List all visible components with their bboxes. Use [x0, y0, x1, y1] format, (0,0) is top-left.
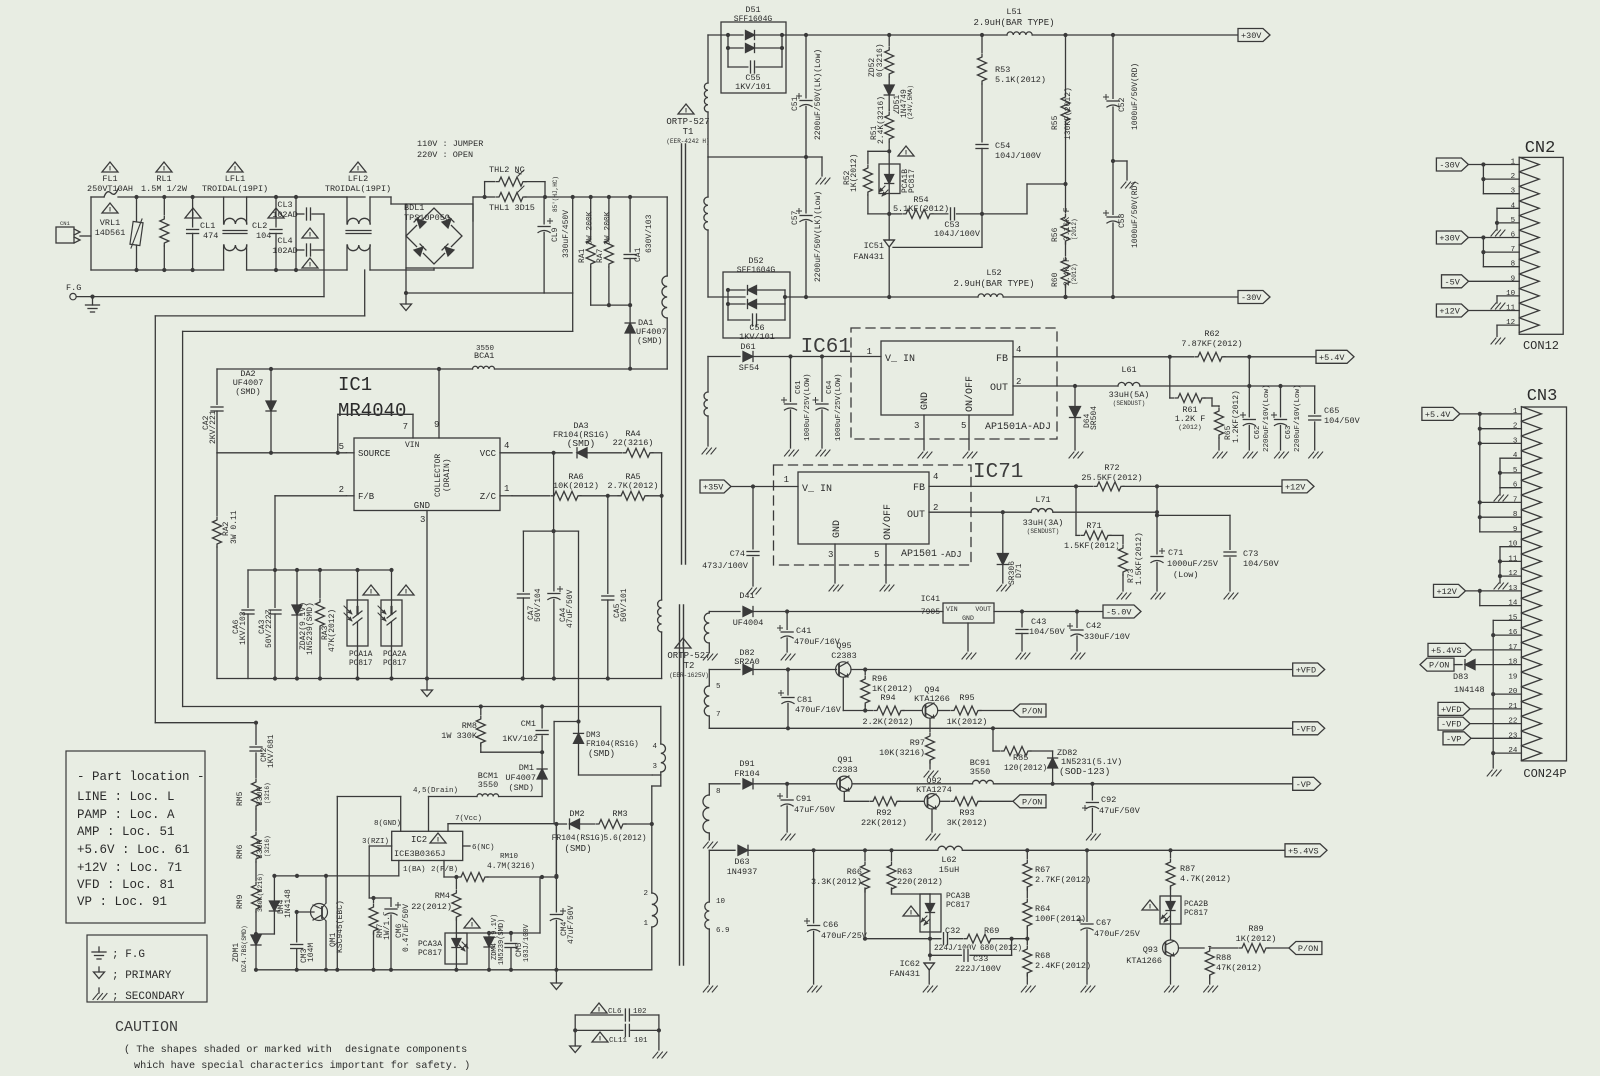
svg-text:PCA2B: PCA2B [1184, 900, 1208, 909]
svg-text:(SMD): (SMD) [637, 336, 663, 346]
wire CN2 pin 12 ground [1491, 325, 1519, 344]
label R51 [870, 96, 886, 144]
flag +30V [1238, 29, 1270, 42]
label DM2 [552, 809, 605, 854]
capacitor C81 [779, 670, 796, 731]
svg-text:2.9uH(BAR TYPE): 2.9uH(BAR TYPE) [973, 18, 1054, 28]
winding T2 VFD [704, 670, 721, 729]
svg-text:2KV/221: 2KV/221 [209, 410, 218, 444]
svg-text:Q91: Q91 [837, 755, 852, 765]
core T2 [680, 605, 684, 965]
wire bridge to B- rail [404, 268, 408, 295]
svg-text:16: 16 [1508, 629, 1518, 637]
svg-text:(EER-4242 H): (EER-4242 H) [666, 138, 709, 145]
resistor R92 [869, 796, 924, 806]
label C41 [794, 626, 841, 647]
label THL2 NC [489, 165, 525, 175]
IC41 7905 [921, 595, 994, 623]
inductor L62 [938, 845, 1285, 852]
svg-text:RA1: RA1 [578, 248, 587, 263]
svg-text:2.7KF(2012): 2.7KF(2012) [1035, 875, 1091, 885]
thermistor THL2 [485, 177, 545, 197]
svg-text:C33: C33 [973, 954, 988, 964]
capacitor C67 [1078, 850, 1095, 984]
label AP1501A-ADJ [985, 422, 1051, 433]
pin 2 F/B [339, 485, 375, 502]
inductor L52 [978, 292, 1238, 299]
wire CN3 pin 14 [1480, 591, 1522, 606]
svg-text:1N4148: 1N4148 [284, 889, 293, 918]
svg-text:470uF/25V: 470uF/25V [821, 931, 868, 941]
svg-text:IC71: IC71 [973, 461, 1023, 484]
svg-text:120(2012): 120(2012) [1004, 764, 1047, 773]
wire T2 primary top [660, 775, 662, 786]
svg-text:(SMD): (SMD) [564, 844, 591, 854]
svg-text:PC817: PC817 [349, 660, 373, 668]
resistor R89 [1210, 943, 1289, 953]
core T1 [682, 144, 686, 564]
label PCA2A [383, 651, 407, 668]
svg-text:PC817: PC817 [383, 660, 407, 668]
svg-text:104: 104 [256, 231, 271, 241]
inductor BC91 [973, 779, 1293, 786]
wire CN2 pins 2-3 [1481, 165, 1519, 194]
svg-text:22K(2012): 22K(2012) [861, 818, 907, 828]
label DA1 [636, 318, 667, 346]
pin 4 VCC [480, 441, 556, 459]
wire aux sense drop [578, 531, 580, 733]
capacitor C52 [1104, 35, 1121, 163]
svg-text:(SMD): (SMD) [588, 749, 615, 759]
svg-text:CL2: CL2 [252, 221, 267, 231]
label CL1 [200, 221, 218, 241]
svg-text:PCA3B: PCA3B [946, 892, 970, 901]
svg-text:(3216): (3216) [264, 782, 271, 804]
svg-text:- Part location -: - Part location - [77, 770, 205, 784]
svg-text:F/B: F/B [358, 492, 375, 502]
label Q94 [914, 685, 950, 704]
svg-text:C57: C57 [791, 210, 800, 225]
diode D82 [709, 665, 835, 675]
wire source line [217, 452, 347, 454]
ground IC41 [962, 623, 976, 659]
svg-text:22(3216): 22(3216) [613, 438, 654, 448]
svg-text:DZ4.7BS(SMD): DZ4.7BS(SMD) [241, 925, 248, 972]
svg-text:3: 3 [652, 763, 657, 771]
svg-text:330uF/450V: 330uF/450V [562, 210, 571, 258]
resistor R73 [1118, 544, 1128, 591]
svg-text:1KV/101: 1KV/101 [739, 332, 775, 342]
svg-text:0(3216): 0(3216) [876, 43, 885, 77]
ground IC1 GND [422, 676, 433, 696]
svg-text:6.9: 6.9 [716, 927, 730, 935]
label BCA1 [474, 345, 495, 361]
varistor VRL1 [130, 195, 143, 272]
svg-text:P/ON: P/ON [1429, 661, 1449, 671]
svg-text:47uF/50V: 47uF/50V [1099, 806, 1141, 816]
svg-text:2.4KF(2012): 2.4KF(2012) [1035, 961, 1091, 971]
capacitor C73 [1223, 550, 1237, 591]
ground primary bottom [551, 970, 562, 990]
label D71 [1008, 561, 1024, 585]
wire LFL2 to bridge bottom [370, 268, 434, 270]
label D41 [733, 591, 764, 628]
capacitor CM6 [384, 898, 401, 970]
wire RZI branch [369, 896, 391, 900]
svg-text:MR4040: MR4040 [338, 400, 406, 422]
diode DA1 [625, 323, 635, 371]
capacitor CA3 [268, 570, 282, 681]
svg-text:(2012): (2012) [1071, 218, 1078, 240]
warning triangle RM4 [464, 918, 480, 928]
pin 45 Drain IC2 [413, 787, 477, 831]
svg-text:+5.4VS: +5.4VS [1288, 846, 1319, 856]
label R88 [1216, 953, 1262, 973]
warning triangle CL3 [302, 228, 318, 238]
svg-text:20: 20 [1508, 688, 1518, 696]
label R69 [980, 926, 1022, 953]
label CN3 [1527, 387, 1558, 406]
label C71 [1167, 548, 1219, 580]
wire F.G line [66, 283, 324, 300]
capacitor C66 [805, 850, 821, 984]
diode D64 [1070, 386, 1081, 450]
capacitor CL9 [537, 197, 573, 293]
label C74 [702, 549, 749, 571]
optocoupler PCA2A [378, 570, 402, 681]
capacitor C55 [728, 48, 782, 74]
svg-text:1K(2012): 1K(2012) [1236, 934, 1277, 944]
warning triangle IC2 [430, 833, 446, 843]
choke LFL1 [223, 197, 247, 270]
label D83 [1453, 672, 1485, 695]
capacitor CM2 [249, 723, 263, 779]
svg-text:5.1KF(2012): 5.1KF(2012) [893, 204, 949, 214]
svg-text:+30V: +30V [1439, 234, 1460, 244]
wire T1 centertap [708, 155, 808, 159]
label R54 [893, 195, 949, 214]
svg-text:4: 4 [933, 472, 938, 482]
svg-text:THL1 3D15: THL1 3D15 [489, 203, 535, 213]
zener ZDM4 [484, 933, 494, 972]
label RA3 [321, 609, 337, 652]
flag +35V [700, 480, 798, 493]
winding T2 VP [703, 784, 721, 840]
svg-text:47K(2012): 47K(2012) [1216, 963, 1262, 973]
label D61 [739, 342, 759, 373]
pin 8 GND IC2 [337, 797, 401, 970]
svg-text:104M: 104M [307, 943, 316, 962]
svg-text:C42: C42 [1086, 621, 1101, 631]
resistor R66 [860, 850, 870, 941]
pin 3 GND [414, 501, 430, 679]
resistor RA4 [622, 448, 662, 496]
label C73 [1243, 549, 1280, 569]
svg-text:R68: R68 [1035, 951, 1050, 961]
svg-text:C81: C81 [797, 695, 812, 705]
svg-text:C2383: C2383 [831, 651, 857, 661]
wire B+ feed T2 [183, 704, 661, 724]
svg-text:R64: R64 [1035, 904, 1050, 914]
label DA2 [233, 369, 264, 397]
ground C91 [781, 834, 795, 840]
svg-text:8(GND): 8(GND) [374, 820, 401, 828]
label PCA3B [946, 892, 970, 910]
svg-text:110V : JUMPER: 110V : JUMPER [417, 139, 483, 149]
capacitor C92 [1083, 784, 1100, 832]
wire B+ rail primary [543, 195, 667, 199]
svg-text:GND: GND [962, 615, 974, 622]
svg-text:FB: FB [913, 483, 925, 494]
resistor RM3 [595, 819, 654, 829]
ground winding -5V [703, 654, 717, 660]
wire IC62 column [928, 939, 932, 960]
svg-text:VCC: VCC [480, 449, 497, 459]
label RA4 [613, 429, 654, 448]
svg-text:GND: GND [832, 520, 843, 538]
svg-text:1KV/681: 1KV/681 [267, 734, 276, 768]
svg-text:3: 3 [420, 515, 425, 525]
label R71 [1064, 521, 1120, 551]
capacitor CL1 [186, 195, 200, 272]
label RM7 [376, 911, 392, 940]
svg-text:T2: T2 [684, 661, 695, 671]
svg-text:3: 3 [828, 550, 833, 560]
label ZD82 [1057, 748, 1122, 777]
label C61 [795, 373, 812, 441]
optocoupler PCA2B [1160, 896, 1181, 924]
wire CM2 branch [155, 722, 256, 724]
label C52 [1118, 63, 1140, 130]
svg-text:1.5M 1/2W: 1.5M 1/2W [141, 184, 188, 194]
label Q95 [831, 641, 857, 661]
svg-text:IC1: IC1 [338, 374, 372, 396]
wire aux to RM3 node [652, 786, 661, 824]
pin2 OUT IC71 [907, 503, 1031, 521]
svg-text:ICE3B0365J: ICE3B0365J [394, 849, 446, 859]
svg-text:1000uF/25V: 1000uF/25V [1167, 559, 1219, 569]
warning triangle LFL1 [227, 162, 243, 172]
resistor R62 [1170, 352, 1252, 362]
label C66 [821, 920, 868, 941]
ground R68 [1021, 986, 1035, 992]
svg-text:LFL2: LFL2 [348, 174, 368, 184]
capacitor C32 [942, 932, 966, 946]
svg-text:which have special characteric: which have special characterics importan… [134, 1060, 470, 1072]
capacitor C74 [746, 487, 760, 587]
resistor RL1 [159, 195, 169, 272]
svg-text:15uH: 15uH [939, 865, 959, 875]
svg-text:PAMP : Loc. A: PAMP : Loc. A [77, 808, 175, 822]
pin1 V_IN IC71 [784, 475, 832, 495]
label CA5 [613, 588, 629, 622]
svg-text:PCA3A: PCA3A [418, 940, 442, 949]
label D64 [1083, 406, 1099, 430]
IC U61 box [881, 341, 1013, 415]
svg-text:50V/222Z: 50V/222Z [265, 609, 274, 648]
wire Q91 base drive [844, 800, 871, 802]
svg-text:D83: D83 [1453, 672, 1468, 682]
ground C52 [1113, 161, 1135, 188]
label R64 [1035, 904, 1086, 924]
wire bottom rail mid [247, 269, 347, 271]
label C92 [1099, 795, 1141, 816]
svg-text:2200uF/50V(LK)(Low): 2200uF/50V(LK)(Low) [814, 49, 823, 140]
svg-text:CN2: CN2 [1525, 139, 1556, 158]
label R92 [861, 808, 907, 828]
wire RM3 junction to winding [651, 824, 653, 893]
ground C67 [1081, 986, 1095, 992]
svg-text:C2383: C2383 [832, 765, 858, 775]
ground C63 [1275, 452, 1289, 458]
label CA1 [634, 214, 654, 262]
label C91 [794, 794, 836, 815]
ground IC71 pin5 [880, 585, 894, 591]
wire clamp node [456, 877, 540, 935]
diode D41 [709, 607, 943, 617]
flag -5V CN2 [1442, 275, 1520, 288]
svg-text:P/ON: P/ON [1298, 944, 1318, 954]
ground C74 [747, 588, 761, 594]
svg-text:1(BA): 1(BA) [403, 866, 426, 874]
resistor RA2 [212, 453, 222, 679]
svg-text:3W 200K: 3W 200K [604, 211, 613, 245]
svg-text:IC61: IC61 [801, 336, 851, 359]
resistor RM9 [251, 881, 261, 936]
svg-text:D91: D91 [739, 759, 754, 769]
svg-text:50V/101: 50V/101 [620, 588, 629, 622]
winding T2 primary [643, 890, 657, 970]
svg-text:47uF/50V: 47uF/50V [566, 589, 575, 628]
svg-text:102: 102 [633, 1008, 647, 1016]
svg-text:R56: R56 [1051, 227, 1060, 242]
capacitor CL11 [573, 1023, 661, 1037]
svg-text:UF4007: UF4007 [505, 773, 536, 783]
svg-text:220V : OPEN: 220V : OPEN [417, 150, 473, 160]
label ZD52 [868, 43, 885, 77]
pin3 GND IC61 [914, 392, 931, 450]
svg-text:C63: C63 [1285, 425, 1293, 439]
svg-text:1: 1 [1511, 159, 1516, 167]
svg-text:50V/104: 50V/104 [534, 588, 543, 622]
resistor R88 [1205, 947, 1215, 984]
svg-text:IC62: IC62 [900, 959, 920, 969]
label L71 [1023, 495, 1064, 535]
svg-text:130KF(2012): 130KF(2012) [1064, 87, 1073, 140]
resistor R61 [1170, 357, 1212, 406]
label CL3 [272, 200, 298, 220]
svg-text:3550: 3550 [970, 767, 990, 777]
ground C64 [816, 450, 830, 456]
flag +12V CN3 [1434, 584, 1522, 597]
wire feedback tap [1027, 182, 1068, 214]
ground R65 [1213, 452, 1227, 458]
ground C92 [1086, 834, 1100, 840]
svg-text:2200uF/10V(Low): 2200uF/10V(Low) [1294, 384, 1302, 452]
capacitor CL6 [575, 1008, 659, 1022]
svg-text:C62: C62 [1254, 425, 1262, 439]
ground CL right [653, 1052, 667, 1058]
wire drain line T1 [217, 367, 473, 371]
svg-text:L62: L62 [941, 855, 956, 865]
svg-text:1.5KF(2012): 1.5KF(2012) [1135, 532, 1144, 585]
ground legend rows [92, 947, 185, 1003]
transistor Q94 [922, 703, 952, 733]
resistor R87 [1166, 850, 1176, 896]
svg-text:IC51: IC51 [864, 241, 884, 251]
svg-text:CL9: CL9 [551, 227, 560, 242]
wire -VFD line [709, 726, 1292, 730]
svg-text:0.47uF/50V: 0.47uF/50V [402, 904, 411, 952]
capacitor C43 [1015, 612, 1029, 652]
svg-text:101: 101 [634, 1037, 648, 1045]
label RM10 [487, 853, 535, 871]
label D91 [734, 759, 760, 779]
svg-text:47uF/50V: 47uF/50V [567, 905, 576, 944]
zener ZD51 [884, 85, 894, 110]
connector CN3 body [1508, 407, 1566, 761]
svg-text:5.6(2012): 5.6(2012) [603, 834, 646, 843]
label Q91 [832, 755, 858, 775]
svg-text:ON/OFF: ON/OFF [882, 504, 894, 540]
svg-text:C66: C66 [823, 920, 838, 930]
label RM5 [236, 782, 271, 806]
label CA4 [559, 589, 575, 628]
label CL9 [551, 176, 571, 258]
resistor R68 [1022, 945, 1032, 984]
capacitor CL2 [269, 195, 283, 272]
svg-text:7905: 7905 [921, 608, 940, 617]
svg-text:RM6: RM6 [236, 844, 245, 859]
svg-text:TROIDAL(19PI): TROIDAL(19PI) [202, 184, 268, 194]
svg-text:BDL1: BDL1 [404, 203, 424, 213]
svg-text:R63: R63 [897, 867, 912, 877]
inductor L61 [1075, 381, 1249, 386]
label R89 [1236, 924, 1277, 944]
svg-text:R92: R92 [876, 808, 891, 818]
svg-text:1N5239(SMD): 1N5239(SMD) [306, 602, 315, 655]
svg-text:10: 10 [1506, 290, 1516, 298]
svg-text:PC817: PC817 [1184, 909, 1208, 918]
wire 5.4V rail junction [1247, 357, 1314, 388]
svg-text:104/50V: 104/50V [1324, 416, 1361, 426]
svg-text:10: 10 [716, 898, 726, 906]
svg-text:AP1501A-ADJ: AP1501A-ADJ [985, 422, 1051, 433]
svg-text:CL4: CL4 [277, 236, 292, 246]
zener ZDA2 [292, 570, 302, 681]
svg-text:AP1501: AP1501 [901, 549, 937, 560]
svg-text:C65: C65 [1324, 406, 1339, 416]
label L51 [973, 7, 1054, 28]
svg-text:RM8: RM8 [462, 721, 477, 731]
label C53 [934, 220, 981, 239]
label DM3 [586, 731, 639, 759]
svg-text:ON/OFF: ON/OFF [964, 376, 976, 412]
svg-text:22(2012): 22(2012) [411, 902, 452, 912]
label AP1501-ADJ [901, 549, 962, 560]
svg-text:33uH(5A): 33uH(5A) [1109, 390, 1150, 400]
capacitor CL4 [296, 243, 324, 257]
svg-text:104/50V: 104/50V [1243, 559, 1280, 569]
wire top rail L [137, 196, 366, 198]
svg-text:3W 200K: 3W 200K [586, 211, 595, 245]
svg-text:CN1: CN1 [60, 220, 71, 227]
svg-text:R96: R96 [872, 674, 887, 684]
pin 7 VIN [336, 414, 420, 455]
diode D71 [997, 510, 1008, 583]
svg-text:3: 3 [914, 421, 919, 431]
winding T2 -5V [704, 612, 709, 653]
